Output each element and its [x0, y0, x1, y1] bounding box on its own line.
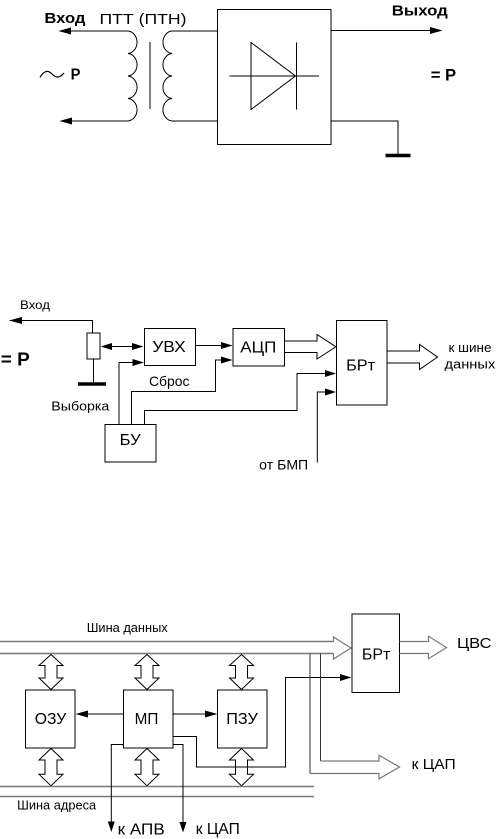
svg-text:к шине: к шине: [449, 340, 492, 355]
double bus arrow ОЗУ-data bus: [39, 655, 63, 690]
svg-text:Выборка: Выборка: [51, 400, 109, 414]
svg-text:к ЦАП: к ЦАП: [412, 756, 456, 773]
wire МП to к АПВ: [111, 745, 123, 824]
wire resistor to ground: [93, 359, 95, 382]
bus arrowhead into БРт (bottom): [334, 637, 352, 659]
svg-text:Выход: Выход: [392, 2, 449, 19]
ground (top): [386, 154, 411, 158]
transformer T1 primary winding: [128, 31, 137, 121]
arrowhead into ОЗУ: [76, 711, 89, 718]
arrowhead input top: [59, 28, 72, 35]
wire input (middle): [10, 321, 93, 334]
svg-text:УВХ: УВХ: [152, 339, 186, 356]
svg-text:БРт: БРт: [362, 647, 391, 664]
double bus arrow ПЗУ-address bus: [230, 749, 254, 786]
arrowhead into УВХ: [132, 343, 144, 350]
wire УВХ to АЦП: [196, 345, 224, 347]
wire БУ to УВХ (sample): [119, 363, 133, 425]
bus arrow к ЦАП (right): [310, 755, 400, 779]
symbol ~ (AC): [40, 71, 64, 77]
bus arrow БРт to data bus: [387, 345, 438, 370]
arrowhead input bottom: [60, 118, 73, 125]
svg-text:= Р: = Р: [1, 349, 30, 369]
diode D1 cathode bar: [296, 43, 298, 110]
svg-text:ОЗУ: ОЗУ: [35, 711, 67, 728]
block ПЗУ box: [218, 690, 268, 748]
arrowhead output: [430, 27, 443, 34]
wire МП to БРт (bottom path): [173, 678, 343, 768]
data bus line 2: [0, 653, 334, 655]
wire secondary bottom to rectifier: [172, 120, 217, 122]
svg-text:АЦП: АЦП: [240, 340, 276, 357]
double bus arrow МП-address bus: [135, 749, 159, 786]
svg-text:Вход: Вход: [20, 298, 50, 312]
block БРт box (bottom): [352, 614, 400, 693]
bus arrow АЦП to БРт: [285, 335, 337, 360]
double bus arrow МП-data bus: [135, 655, 159, 690]
bus arrow БРт to ЦВС: [400, 636, 447, 658]
arrowhead into resistor: [101, 343, 113, 350]
wire output: [331, 30, 434, 32]
rectifier block box: [218, 10, 332, 145]
arrowhead into УВХ lower: [133, 359, 145, 366]
wire secondary top to rectifier: [172, 30, 217, 32]
block УВХ box: [145, 329, 196, 366]
address bus line 1: [0, 786, 314, 788]
svg-text:ЦВС: ЦВС: [457, 635, 492, 652]
address bus line 2: [0, 796, 314, 798]
diode D1 axis line: [230, 75, 320, 77]
transformer T1 core: [149, 42, 151, 109]
arrowhead into БРт input2: [325, 389, 336, 396]
svg-text:= Р: = Р: [431, 66, 457, 85]
block ОЗУ box: [26, 690, 76, 748]
svg-text:ПТТ (ПТН): ПТТ (ПТН): [100, 11, 187, 28]
wire double arrow resistor-УВХ: [104, 346, 140, 348]
wire БУ to БРт: [145, 374, 328, 425]
svg-text:МП: МП: [135, 711, 159, 728]
arrowhead into БРт input1: [325, 370, 336, 377]
arrowhead к ЦАП (down): [180, 822, 187, 833]
arrowhead к АПВ (down): [108, 822, 115, 833]
svg-text:Шина данных: Шина данных: [87, 620, 168, 635]
arrowhead into АЦП lower: [221, 357, 233, 364]
data bus line 1: [0, 641, 334, 643]
double bus arrow ОЗУ-address bus: [39, 749, 63, 786]
transformer T1 secondary winding: [163, 31, 172, 121]
svg-text:от БМП: от БМП: [259, 457, 308, 473]
arrowhead input (middle): [9, 317, 22, 324]
double bus arrow ПЗУ-data bus: [230, 655, 254, 690]
svg-text:Вход: Вход: [44, 10, 86, 27]
block МП box: [124, 690, 174, 748]
wire от БМП to БРт: [317, 392, 327, 463]
arrowhead into БРт (bottom) input: [340, 674, 352, 681]
wire МП to ОЗУ: [84, 713, 124, 715]
svg-text:Р: Р: [71, 66, 81, 83]
arrowhead into АЦП: [221, 342, 233, 349]
svg-text:к ЦАП: к ЦАП: [196, 821, 240, 838]
block БУ box: [105, 425, 156, 463]
arrowhead into ПЗУ: [205, 711, 218, 718]
svg-text:Сброс: Сброс: [149, 373, 190, 389]
ground (middle): [78, 382, 106, 386]
resistor R1: [87, 333, 100, 359]
bus drop vertical 2 (to к ЦАП lower): [309, 654, 311, 774]
svg-text:БУ: БУ: [120, 432, 142, 449]
wire rectifier to ground: [331, 121, 398, 154]
block АЦП box: [233, 329, 285, 367]
bus drop vertical 1 (to к ЦАП upper): [320, 654, 322, 762]
wire input bottom: [61, 120, 128, 122]
svg-text:к АПВ: к АПВ: [118, 822, 165, 839]
svg-text:данных: данных: [445, 356, 496, 371]
wire МП to к ЦАП (down): [173, 745, 183, 824]
block БРт box (middle): [337, 321, 388, 406]
wire Сброс from БУ to АЦП: [132, 360, 223, 424]
svg-text:БРт: БРт: [346, 357, 376, 374]
svg-text:ПЗУ: ПЗУ: [226, 711, 258, 728]
svg-text:Шина адреса: Шина адреса: [17, 798, 97, 813]
wire input top: [60, 30, 128, 32]
wire МП to ПЗУ: [173, 713, 209, 715]
diode D1 triangle: [251, 43, 296, 110]
